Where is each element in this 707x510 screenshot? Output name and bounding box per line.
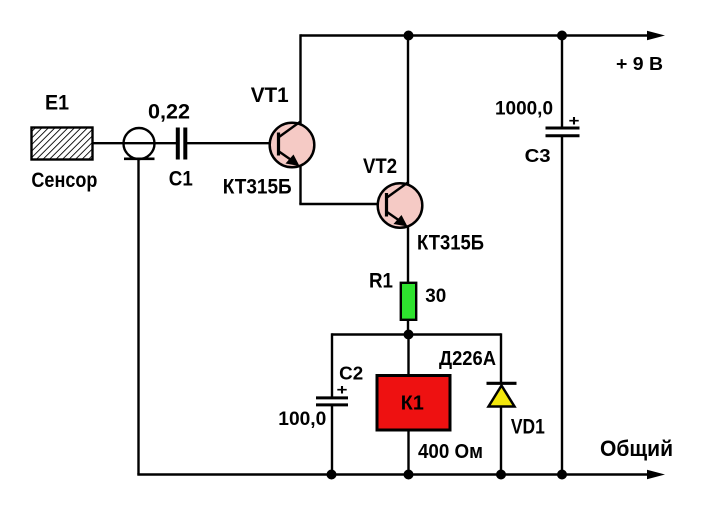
wire K1 bottom — [407, 430, 409, 476]
transistor VT2 — [378, 182, 423, 228]
diode VD1 — [487, 383, 517, 406]
svg-text:С3: С3 — [525, 145, 551, 166]
wire C2 branch top — [331, 333, 333, 396]
node junction top rail / VT2 collector — [404, 31, 414, 41]
svg-text:КТ315Б: КТ315Б — [223, 176, 292, 199]
capacitor C3 — [546, 128, 580, 136]
transistor VT1 — [270, 122, 315, 168]
capacitor C2 — [316, 398, 348, 405]
wire VD1 branch bottom — [500, 407, 502, 476]
wire terminal down — [137, 159, 139, 475]
svg-text:400 Ом: 400 Ом — [418, 441, 483, 463]
wire C3 branch bottom — [561, 136, 563, 476]
svg-text:100,0: 100,0 — [278, 408, 326, 430]
svg-text:+: + — [569, 113, 580, 130]
arrow ground rail — [647, 470, 665, 480]
svg-text:VD1: VD1 — [511, 416, 545, 439]
wire C2 branch bottom — [331, 405, 333, 476]
svg-text:Д226А: Д226А — [439, 348, 496, 370]
svg-text:+ 9 В: + 9 В — [616, 53, 663, 74]
svg-text:КТ315Б: КТ315Б — [417, 231, 484, 254]
wire R1 to mid node — [407, 321, 409, 336]
svg-text:+: + — [337, 382, 348, 399]
svg-text:0,22: 0,22 — [148, 101, 190, 124]
wire VT1 collector — [299, 34, 301, 124]
wire VT2 emitter to R1 — [407, 226, 409, 282]
wire VD1 branch top — [500, 333, 502, 383]
svg-text:1000,0: 1000,0 — [495, 99, 553, 120]
wire VT1 emitter down — [299, 165, 301, 204]
wire C1 to VT1 base — [187, 142, 271, 144]
svg-text:С1: С1 — [169, 168, 193, 191]
node junction mid — [404, 330, 414, 340]
resistor R1 — [401, 283, 416, 320]
node junction top rail / C3 branch — [557, 31, 567, 41]
node junction bottom C2 — [327, 470, 337, 480]
svg-text:VT2: VT2 — [363, 155, 397, 178]
node junction bottom C3 — [557, 470, 567, 480]
wire C3 branch top — [561, 34, 563, 127]
svg-text:Е1: Е1 — [45, 92, 69, 115]
wire VT1 emitter to VT2 base — [299, 203, 378, 205]
wire top rail to +9V — [301, 34, 651, 36]
wire VT2 collector — [407, 36, 409, 185]
svg-text:30: 30 — [425, 286, 446, 307]
svg-text:Общий: Общий — [600, 436, 673, 461]
terminal bar — [124, 158, 155, 161]
svg-text:VT1: VT1 — [251, 84, 289, 107]
svg-text:К1: К1 — [401, 393, 424, 415]
wire mid horizontal — [332, 333, 502, 335]
node junction bottom K1 — [404, 470, 414, 480]
svg-text:С2: С2 — [339, 362, 363, 383]
relay K1 — [377, 376, 450, 431]
wire K1 top — [407, 335, 409, 377]
capacitor C1 — [178, 128, 186, 160]
sensor plate E1 — [32, 128, 93, 160]
terminal circle — [124, 128, 155, 159]
arrow +9V rail — [647, 31, 665, 41]
svg-text:Сенсор: Сенсор — [31, 169, 97, 192]
wire bottom rail — [137, 473, 650, 475]
node junction bottom VD1 — [496, 470, 506, 480]
wire sensor to C1 — [92, 142, 176, 144]
svg-text:R1: R1 — [369, 269, 393, 292]
